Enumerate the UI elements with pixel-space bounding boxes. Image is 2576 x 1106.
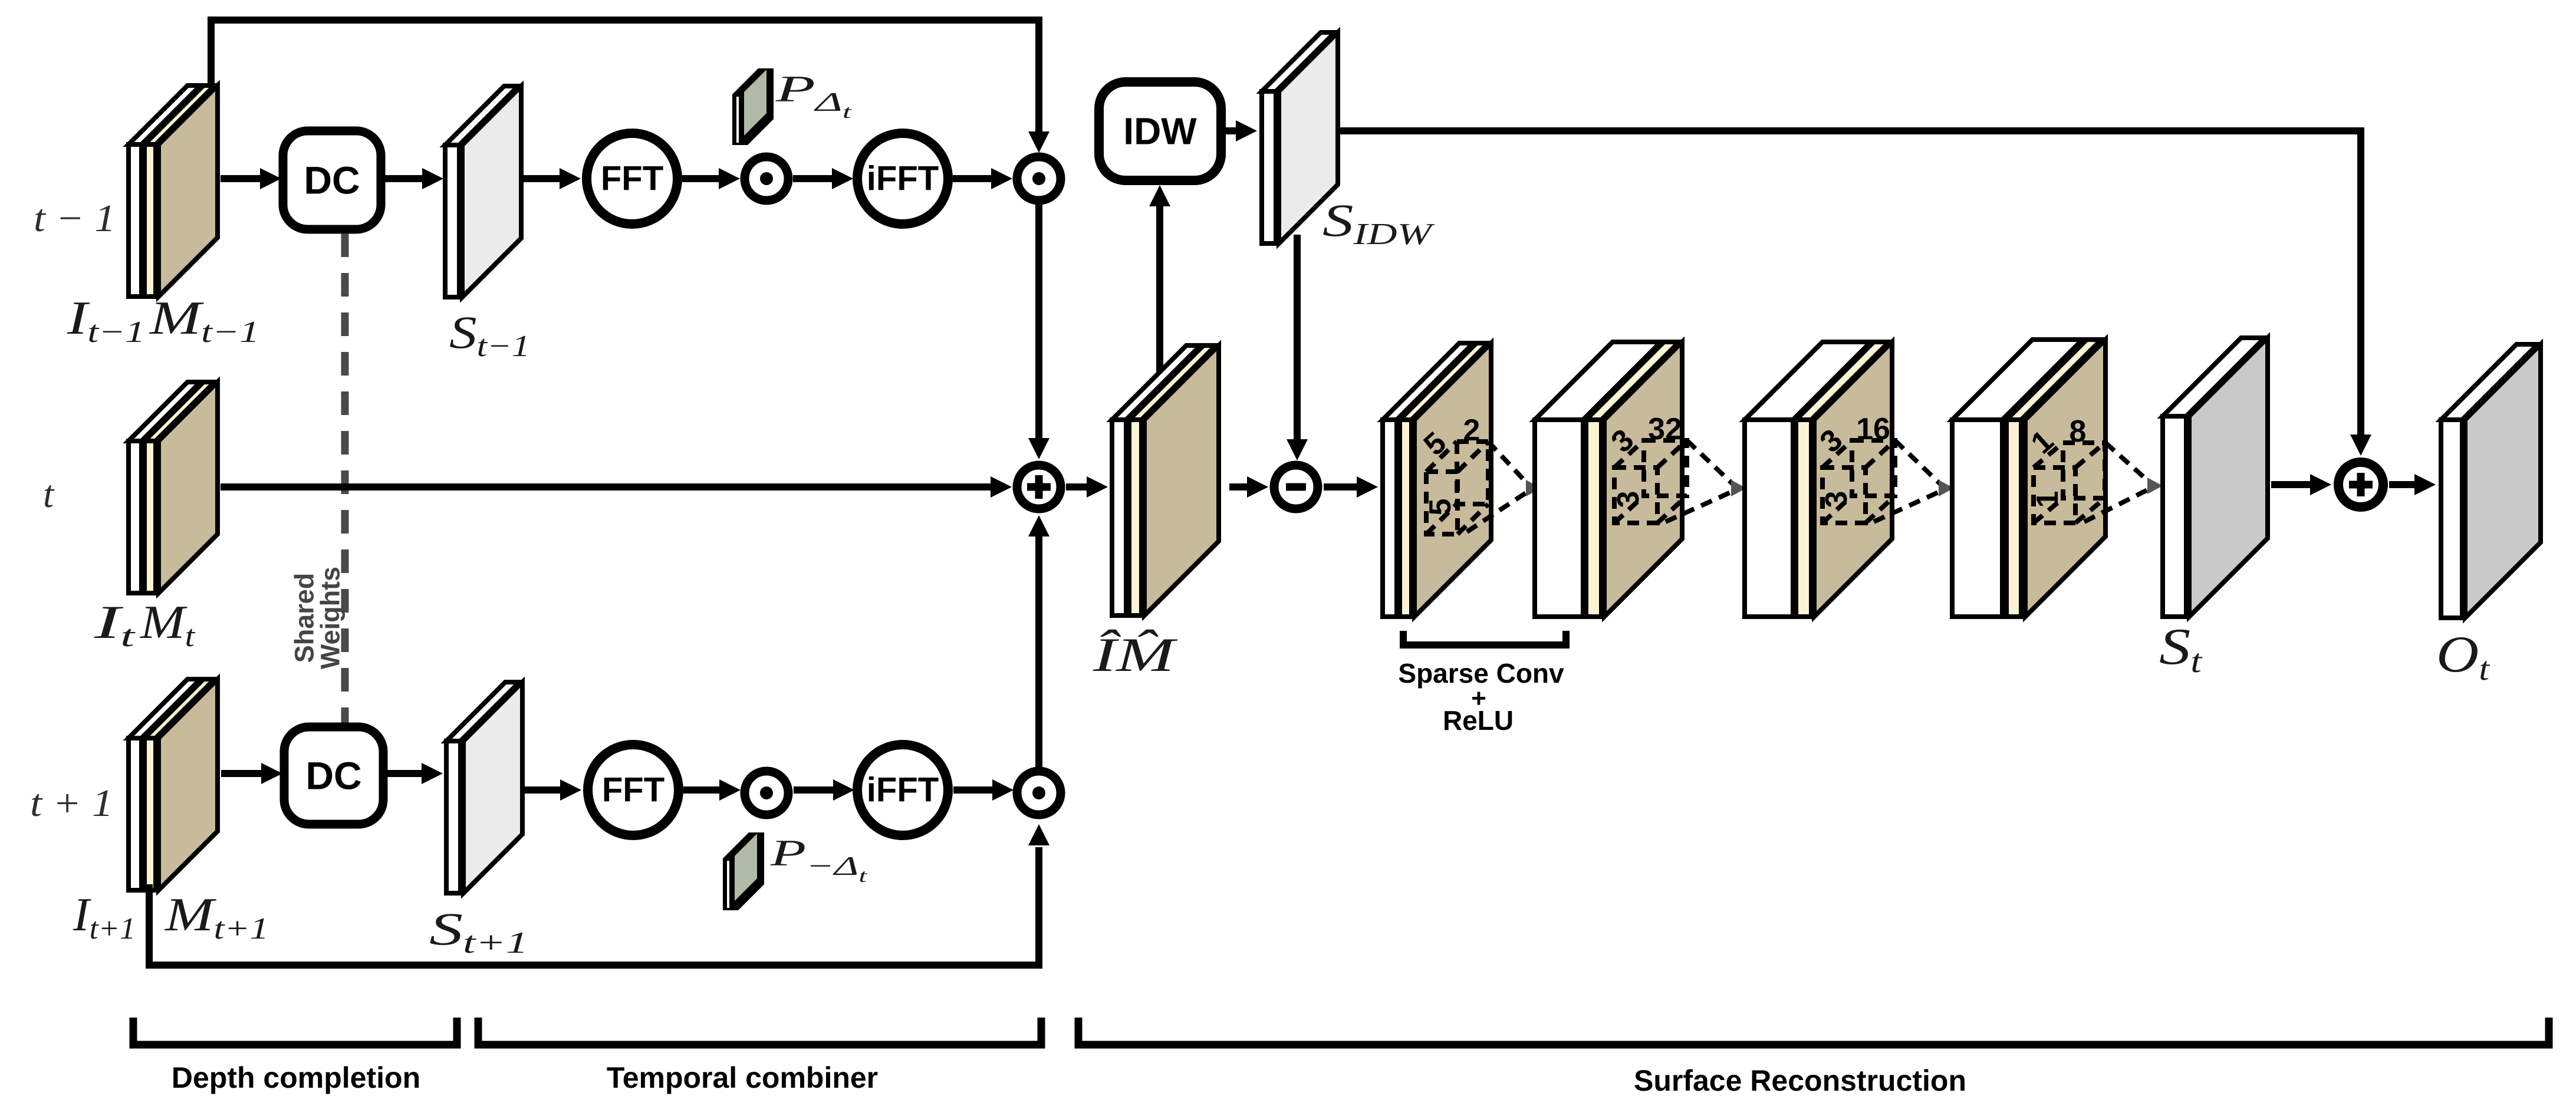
block DC row1 <box>283 131 381 229</box>
svg-text:3: 3 <box>1820 491 1854 508</box>
arrow S_t+1 to FFT2 <box>522 779 581 801</box>
wire S_IDW long line to plus2 <box>1340 131 2371 456</box>
svg-text:Weights: Weights <box>315 567 346 669</box>
arrow DC2 to S_t+1 <box>384 763 443 784</box>
svg-text:t: t <box>43 473 55 516</box>
slab S_IDW <box>1262 32 1338 243</box>
label Temporal combiner <box>607 1061 878 1094</box>
op odot2 hadamard <box>1017 157 1061 200</box>
svg-text:It: It <box>93 597 136 653</box>
svg-text:t + 1: t + 1 <box>30 782 113 825</box>
svg-text:St−1: St−1 <box>449 307 530 363</box>
arrow iFFT to odot2 <box>953 168 1012 189</box>
stack IM-hat <box>1112 345 1219 615</box>
svg-text:St: St <box>2159 618 2203 680</box>
label S_IDW <box>1322 195 1435 251</box>
shared-weights dashed line <box>341 233 349 724</box>
label Depth completion <box>172 1061 420 1094</box>
svg-text:2: 2 <box>1463 413 1481 447</box>
cone conv1 to conv2 <box>1467 442 1541 532</box>
svg-text:Temporal combiner: Temporal combiner <box>607 1061 878 1094</box>
patch P_dt <box>732 68 774 145</box>
svg-text:ReLU: ReLU <box>1443 705 1514 736</box>
label M_t+1 <box>165 889 269 946</box>
kernel cube 3x3x16 <box>1814 412 1895 523</box>
label I_t M_t <box>93 597 195 653</box>
label O_t <box>2436 626 2491 687</box>
label Sparse Conv + ReLU <box>1398 658 1564 736</box>
brace surface reconstruction <box>1078 1018 2549 1045</box>
block DC row3 <box>284 727 383 824</box>
svg-text:Mt: Mt <box>140 597 196 653</box>
cone conv4 to S_t <box>2084 443 2163 522</box>
wire stack t to plus adder <box>221 476 1012 498</box>
brace depth completion <box>133 1018 457 1045</box>
op plus2 adder <box>2338 462 2383 507</box>
svg-text:FFT: FFT <box>601 160 663 198</box>
conv stack 1 (sparse conv 5x5) <box>1383 343 1491 617</box>
label t-1 <box>34 197 116 240</box>
brace temporal combiner <box>478 1018 1041 1045</box>
arrow odot3 to iFFT2 <box>794 779 854 801</box>
arrow stack t-1 to DC <box>221 168 281 189</box>
svg-text:3: 3 <box>1611 491 1646 508</box>
op FFT row3 <box>588 745 679 835</box>
label P_dt <box>775 68 853 122</box>
svg-text:IDW: IDW <box>1123 110 1197 153</box>
block IDW <box>1099 82 1221 180</box>
arrow iFFT2 to odot4 <box>953 779 1014 801</box>
svg-text:ÎM̂: ÎM̂ <box>1093 628 1179 682</box>
op odot4 hadamard <box>1017 771 1061 815</box>
op minus <box>1274 465 1318 509</box>
wire S_IDW down to minus <box>1287 235 1308 460</box>
svg-text:FFT: FFT <box>602 771 664 809</box>
slab O_t <box>2441 344 2541 618</box>
input stack I_t+1 M_t+1 <box>129 679 218 890</box>
svg-text:32: 32 <box>1648 412 1682 446</box>
label S_t-1 <box>449 307 530 363</box>
op odot3 hadamard <box>745 771 788 815</box>
slab S_t <box>2163 338 2268 617</box>
arrow IM-hat stack up to IDW <box>1149 185 1170 424</box>
label IM-hat <box>1093 628 1179 682</box>
wire bottom bypass from stack t+1 to odot4 <box>149 824 1050 965</box>
arrow stack t+1 to DC2 <box>221 763 282 784</box>
svg-text:P−Δt: P−Δt <box>769 832 867 886</box>
label P_-dt <box>769 832 867 886</box>
arrow minus to conv1 <box>1324 476 1378 498</box>
arrow plus2 to O_t <box>2389 474 2436 495</box>
kernel cube 5x5x2 <box>1417 413 1488 534</box>
svg-text:Depth completion: Depth completion <box>172 1061 420 1094</box>
cone conv2 to conv3 <box>1666 440 1746 522</box>
conv stack 2 (32ch) <box>1535 342 1682 617</box>
label t <box>43 473 55 516</box>
label S_t+1 <box>429 903 528 960</box>
slab S_t-1 <box>445 86 521 297</box>
input stack I_t M_t <box>129 382 218 593</box>
op FFT row1 <box>587 133 677 224</box>
input stack I_t-1 M_t-1 <box>129 85 218 297</box>
svg-text:SIDW: SIDW <box>1322 195 1435 251</box>
svg-text:1: 1 <box>2031 491 2065 508</box>
arrow DC to S_t-1 <box>382 168 443 189</box>
svg-text:St+1: St+1 <box>429 903 528 960</box>
arrow FFT to odot1 <box>682 168 740 189</box>
label Shared Weights <box>289 567 346 669</box>
svg-text:16: 16 <box>1856 412 1890 446</box>
arrow IDW to S_IDW <box>1222 120 1257 141</box>
svg-text:Mt+1: Mt+1 <box>165 889 269 946</box>
svg-text:iFFT: iFFT <box>867 771 939 809</box>
svg-text:PΔt: PΔt <box>775 68 853 122</box>
conv stack 3 (16ch) <box>1745 342 1892 617</box>
op plus adder <box>1017 465 1061 509</box>
svg-text:8: 8 <box>2070 414 2087 449</box>
arrow odot1 to iFFT <box>793 168 853 189</box>
kernel cube 3x3x32 <box>1605 412 1687 523</box>
svg-text:It−1: It−1 <box>67 292 145 349</box>
arrow plus to IM-hat <box>1066 476 1108 498</box>
wire odot4 up to plus adder <box>1028 515 1050 768</box>
arrow FFT2 to odot3 <box>683 779 741 801</box>
conv stack 4 (8ch) <box>1952 340 2105 617</box>
op odot1 hadamard <box>745 157 788 200</box>
op iFFT row3 <box>857 745 948 835</box>
svg-text:Ot: Ot <box>2436 626 2491 687</box>
svg-text:iFFT: iFFT <box>867 160 939 198</box>
arrow IM-hat to minus <box>1229 476 1268 498</box>
label S_t <box>2159 618 2203 680</box>
svg-text:t − 1: t − 1 <box>34 197 116 240</box>
label t+1 <box>30 782 113 825</box>
svg-text:DC: DC <box>305 754 361 798</box>
bracket sparse conv <box>1403 631 1566 645</box>
label I_t-1 M_t-1 <box>67 292 259 349</box>
patch P_-dt <box>723 832 764 910</box>
wire odot2 down to plus adder <box>1028 200 1050 459</box>
arrow S_t-1 to FFT <box>524 168 581 189</box>
svg-text:5: 5 <box>1423 499 1458 516</box>
slab S_t+1 <box>446 682 522 893</box>
svg-text:Mt−1: Mt−1 <box>149 292 259 349</box>
svg-text:It+1: It+1 <box>73 889 136 946</box>
wire top bypass from I_t-1 stack to odot2 <box>211 20 1050 153</box>
svg-text:Surface Reconstruction: Surface Reconstruction <box>1634 1064 1966 1097</box>
op iFFT row1 <box>857 133 948 224</box>
kernel cube 1x1x8 <box>2025 414 2105 523</box>
label I_t+1 <box>73 889 136 946</box>
label Surface Reconstruction <box>1634 1064 1966 1097</box>
arrow S_t to plus2 <box>2271 474 2331 495</box>
svg-text:DC: DC <box>304 159 360 202</box>
cone conv3 to conv4 <box>1874 440 1954 522</box>
